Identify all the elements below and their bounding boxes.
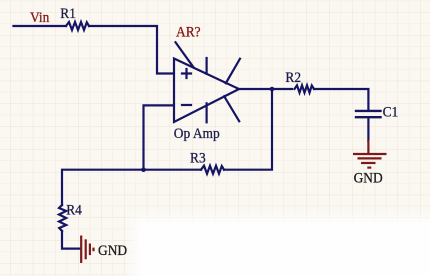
wire R1 to op-amp + input (89, 26, 173, 74)
svg-text:AR?: AR? (176, 25, 201, 41)
svg-text:R3: R3 (190, 151, 206, 167)
svg-text:R2: R2 (285, 71, 301, 87)
node junction dot at output (270, 87, 275, 92)
wire feedback node to R4 (62, 170, 144, 205)
ground GND right: pin stub (367, 140, 369, 153)
node junction dot at feedback node (141, 167, 146, 172)
svg-text:Op Amp: Op Amp (174, 126, 220, 142)
op-amp pin 5 (bottom-right diagonal) (224, 96, 239, 121)
op-amp plus symbol (182, 69, 191, 78)
wire R3 to output node (224, 89, 272, 170)
op-amp pin V+ (top vertical) (206, 58, 208, 74)
capacitor C1 bottom plate (356, 116, 381, 118)
svg-text:C1: C1 (383, 105, 399, 121)
wire op-amp - input (144, 105, 174, 169)
op-amp pin V- (bottom vertical) (206, 103, 208, 122)
op-amp minus symbol (182, 104, 191, 106)
op-amp pin 1 (diagonal to AR?) (176, 42, 194, 67)
resistor R2 (295, 85, 315, 92)
resistor R1 (66, 22, 89, 30)
resistor R4 (59, 205, 66, 231)
svg-text:GND: GND (98, 243, 127, 259)
ground GND right: bar 2 (358, 157, 382, 159)
op-amp U1 triangle (174, 59, 239, 123)
capacitor C1 top plate (356, 110, 381, 112)
ground GND right: bar 4 (367, 167, 371, 169)
ground GND right: bar 3 (361, 162, 376, 164)
wire R4 to ground (62, 231, 80, 249)
wire capacitor to ground (367, 118, 369, 141)
ground GND left: bar 4 (92, 248, 94, 252)
resistor R3 (201, 166, 224, 174)
ground GND left: bar 2 (85, 239, 87, 259)
svg-text:R1: R1 (60, 6, 76, 22)
ground GND left: bar 3 (89, 244, 91, 256)
wire R2 to capacitor (314, 89, 368, 110)
svg-text:R4: R4 (66, 203, 82, 219)
ground GND right: bar 1 (353, 153, 387, 155)
svg-text:GND: GND (354, 171, 383, 187)
wire Vin input (14, 25, 67, 27)
ground GND left: bar 1 (80, 236, 82, 264)
wire node to R3 (144, 169, 202, 171)
op-amp pin 8 (top-right diagonal) (226, 59, 240, 83)
wire op-amp output (239, 88, 292, 90)
svg-text:Vin: Vin (30, 11, 49, 27)
